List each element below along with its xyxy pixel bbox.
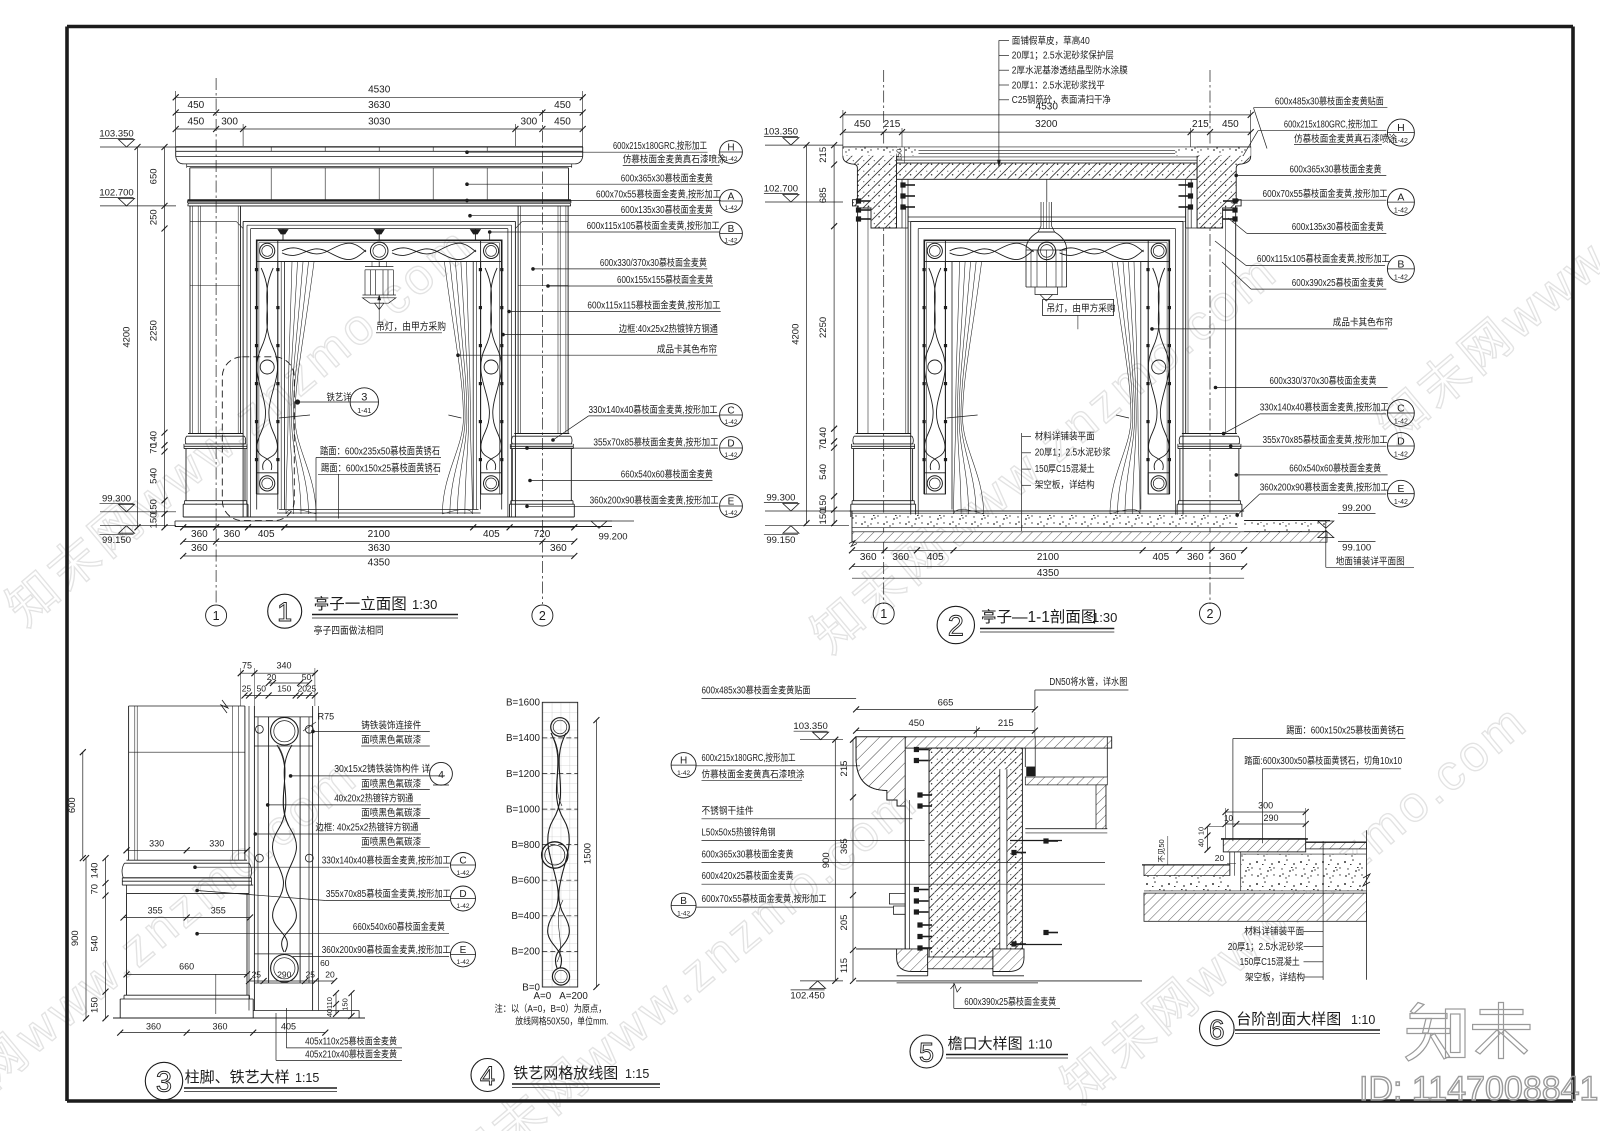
iron grille corner boxes <box>257 240 278 261</box>
svg-text:70: 70 <box>149 443 160 454</box>
svg-text:架空板，详结构: 架空板，详结构 <box>1245 970 1305 983</box>
section left cornice block hatched <box>843 147 897 228</box>
svg-text:铁艺网格放线图: 铁艺网格放线图 <box>513 1065 618 1082</box>
svg-text:450: 450 <box>908 718 924 729</box>
svg-text:405: 405 <box>927 552 944 563</box>
svg-text:150: 150 <box>277 684 291 694</box>
svg-text:600x115x105慕枝面金麦黄,按形加工: 600x115x105慕枝面金麦黄,按形加工 <box>587 219 720 232</box>
svg-text:1-42: 1-42 <box>677 770 690 777</box>
section opening trim <box>911 220 1183 222</box>
svg-text:30x15x2铸铁装饰构件 详: 30x15x2铸铁装饰构件 详 <box>334 762 430 775</box>
svg-text:360: 360 <box>146 1021 161 1031</box>
svg-text:70: 70 <box>90 884 101 895</box>
detail3 iron bottom circle <box>271 955 299 983</box>
column pedestal <box>853 449 855 501</box>
svg-text:1:10: 1:10 <box>1028 1038 1052 1052</box>
svg-text:140: 140 <box>90 863 101 879</box>
svg-text:1-42: 1-42 <box>456 903 469 910</box>
svg-text:360: 360 <box>223 529 240 540</box>
svg-text:3630: 3630 <box>368 100 391 111</box>
elevation bottom dimension row3 <box>183 555 574 557</box>
svg-text:600x215x180GRC,按形加工: 600x215x180GRC,按形加工 <box>1284 118 1378 131</box>
section 99.200 / 99.100 levels right <box>1244 520 1330 522</box>
section axis line 2 <box>1209 70 1211 604</box>
detail4 grid strip <box>542 702 577 987</box>
svg-text:1:30: 1:30 <box>412 597 437 612</box>
svg-text:成品卡其色布帘: 成品卡其色布帘 <box>657 342 717 355</box>
svg-text:355x70x85慕枝面金麦黄,按形加工: 355x70x85慕枝面金麦黄,按形加工 <box>326 887 451 900</box>
svg-text:3030: 3030 <box>368 117 391 128</box>
svg-text:B=200: B=200 <box>511 947 540 958</box>
svg-text:360: 360 <box>550 543 567 554</box>
svg-text:1: 1 <box>277 597 292 627</box>
svg-text:150: 150 <box>90 997 101 1013</box>
section left levels <box>765 144 843 146</box>
iron grille mid circles <box>1038 242 1056 260</box>
svg-text:360: 360 <box>1187 552 1204 563</box>
detail5 title circle <box>910 1035 943 1068</box>
iron grille side scrolls <box>929 268 945 470</box>
elevation ironwork callout leader <box>295 399 300 404</box>
svg-text:B=1600: B=1600 <box>506 698 541 709</box>
svg-text:360: 360 <box>860 552 877 563</box>
svg-text:B: B <box>680 896 687 907</box>
svg-text:150: 150 <box>149 513 160 529</box>
detail3 connector circles <box>256 725 264 733</box>
elevation cornice cove moulding <box>176 156 184 164</box>
elevation left levels 103.350 <box>100 146 176 148</box>
column base cap <box>1182 433 1237 435</box>
svg-text:成品卡其色布帘: 成品卡其色布帘 <box>1333 315 1393 328</box>
svg-text:A=0: A=0 <box>533 991 551 1002</box>
svg-text:边框: 40x25x2热镀锌方钢通: 边框: 40x25x2热镀锌方钢通 <box>316 820 419 833</box>
section grass stipple cap right <box>1175 148 1251 156</box>
detail6 bottom hatch band <box>1144 893 1366 921</box>
elevation frieze band <box>189 168 191 200</box>
section 150 slab dim <box>904 147 906 163</box>
column base cap <box>514 433 569 435</box>
svg-text:1-42: 1-42 <box>724 238 737 245</box>
iron grille side scrolls <box>261 268 277 470</box>
callout circle 3 / 1-41 <box>350 388 378 416</box>
svg-text:60: 60 <box>320 958 330 968</box>
column plinth <box>1178 500 1240 502</box>
section left dimension column <box>833 145 835 523</box>
svg-text:1-42: 1-42 <box>1394 451 1408 458</box>
column base cap <box>188 433 243 435</box>
detail5 600x70x55 stone bumps <box>889 894 905 905</box>
svg-text:660: 660 <box>179 962 194 972</box>
section bottom dimension row1 <box>852 549 1244 551</box>
section roof build-up lines <box>897 146 1198 148</box>
detail3 iron scroll curves <box>277 745 296 952</box>
svg-text:1-42: 1-42 <box>724 419 737 426</box>
svg-text:600x70x55慕枝面金麦黄,按形加工: 600x70x55慕枝面金麦黄,按形加工 <box>596 188 721 201</box>
svg-text:3200: 3200 <box>1035 119 1058 130</box>
svg-text:1-42: 1-42 <box>724 452 737 459</box>
svg-text:B=800: B=800 <box>511 840 540 851</box>
svg-text:C: C <box>459 856 466 867</box>
svg-text:340: 340 <box>276 661 291 671</box>
svg-text:B=1200: B=1200 <box>506 769 541 780</box>
svg-text:250: 250 <box>149 209 160 225</box>
elevation opening inner edges <box>283 262 285 510</box>
svg-text:75: 75 <box>242 661 252 671</box>
svg-text:600x155x155慕枝面金麦黄: 600x155x155慕枝面金麦黄 <box>617 273 713 286</box>
svg-text:900: 900 <box>821 852 832 868</box>
svg-text:103.350: 103.350 <box>99 129 133 140</box>
svg-text:99.150: 99.150 <box>102 535 131 546</box>
iron grille bottom boxes <box>257 473 278 494</box>
svg-text:仿慕枝面金麦黄真石漆喷涂: 仿慕枝面金麦黄真石漆喷涂 <box>702 768 805 781</box>
svg-text:102.700: 102.700 <box>99 187 133 198</box>
svg-text:铸铁装饰连接件: 铸铁装饰连接件 <box>361 719 421 732</box>
svg-text:A: A <box>1397 192 1404 204</box>
svg-text:2250: 2250 <box>818 317 829 338</box>
detail5 right interior corner <box>1024 748 1026 767</box>
svg-text:A=200: A=200 <box>559 991 588 1002</box>
svg-text:亭子—1-1剖面图: 亭子—1-1剖面图 <box>981 608 1096 626</box>
svg-text:4350: 4350 <box>1037 568 1060 579</box>
svg-text:360x200x90慕枝面金麦黄,按形加工: 360x200x90慕枝面金麦黄,按形加工 <box>1260 481 1389 494</box>
svg-text:330x140x40慕枝面金麦黄,按形加工: 330x140x40慕枝面金麦黄,按形加工 <box>1260 401 1389 414</box>
svg-text:540: 540 <box>149 468 160 484</box>
section anchor bolts <box>856 198 861 203</box>
section right cornice block hatched <box>1197 147 1251 228</box>
section overall 4200 dim <box>806 145 808 523</box>
svg-text:110: 110 <box>325 997 334 1009</box>
column pedestal <box>1179 449 1181 501</box>
svg-text:20厚1；2.5水泥砂浆保护层: 20厚1；2.5水泥砂浆保护层 <box>1012 49 1114 62</box>
detail3 ground line <box>113 1017 365 1019</box>
svg-text:150: 150 <box>149 499 160 515</box>
svg-text:300: 300 <box>521 117 538 128</box>
curtain drape <box>954 262 960 514</box>
svg-text:650: 650 <box>149 168 160 184</box>
detail5 bottom moulding <box>897 949 928 972</box>
svg-text:99.200: 99.200 <box>1342 503 1371 514</box>
detail3 title circle <box>145 1062 182 1099</box>
elevation opening stone trim <box>243 220 515 222</box>
section title circle <box>937 606 974 643</box>
svg-text:2: 2 <box>539 609 546 623</box>
svg-text:6: 6 <box>1209 1014 1225 1045</box>
detail5 vertical dims <box>834 740 836 981</box>
elevation left levels 99.150 <box>100 525 176 527</box>
detail4 title circle <box>471 1059 504 1092</box>
detail4 scroll pattern <box>551 718 570 737</box>
svg-text:不锈钢干挂件: 不锈钢干挂件 <box>702 804 754 817</box>
svg-text:面铺假草皮，草高40: 面铺假草皮，草高40 <box>1012 34 1090 47</box>
svg-text:360x200x90慕枝面金麦黄,按形加工: 360x200x90慕枝面金麦黄,按形加工 <box>590 494 719 507</box>
svg-text:材料详铺装平面: 材料详铺装平面 <box>1244 925 1304 938</box>
elevation left levels 102.700 <box>100 205 176 207</box>
elevation chandelier <box>378 262 380 267</box>
svg-text:1:10: 1:10 <box>1351 1013 1375 1027</box>
elevation 99.200 level <box>570 520 634 522</box>
svg-text:D: D <box>727 439 734 450</box>
svg-text:99.300: 99.300 <box>102 493 131 504</box>
svg-text:4530: 4530 <box>368 85 391 96</box>
detail6 left fragment edge <box>1143 830 1145 921</box>
detail5 right soffit panel <box>1025 777 1107 785</box>
elevation bottom dimension row1 <box>183 526 574 528</box>
svg-text:踏面：600x235x50慕枝面黄锈石: 踏面：600x235x50慕枝面黄锈石 <box>320 445 440 458</box>
svg-text:360: 360 <box>191 529 208 540</box>
svg-text:面喷黑色氟碳漆: 面喷黑色氟碳漆 <box>361 835 421 848</box>
svg-text:600x485x30慕枝面金麦黄贴面: 600x485x30慕枝面金麦黄贴面 <box>1275 95 1384 108</box>
elevation column joint lines <box>190 285 241 287</box>
svg-text:330x140x40慕枝面金麦黄,按形加工: 330x140x40慕枝面金麦黄,按形加工 <box>322 854 451 867</box>
svg-text:150厚C15混凝土: 150厚C15混凝土 <box>1240 955 1300 968</box>
svg-text:450: 450 <box>854 119 871 130</box>
svg-text:1-42: 1-42 <box>677 910 690 917</box>
grille connector studs <box>479 268 482 271</box>
detail5 wall cladding strips <box>904 790 906 949</box>
detail5 top slab hatched band <box>856 737 1112 748</box>
svg-text:360: 360 <box>191 543 208 554</box>
sheet border frame <box>67 25 1573 29</box>
elevation axis bubble 1 <box>206 605 227 626</box>
svg-text:365: 365 <box>839 838 850 854</box>
svg-text:300: 300 <box>221 117 238 128</box>
svg-text:4200: 4200 <box>122 327 133 348</box>
section opening inner edges <box>951 262 953 510</box>
grille connector studs <box>1146 268 1149 271</box>
elevation top dimension row 4530 <box>175 91 177 147</box>
svg-text:20厚1；2.5水泥砂浆: 20厚1；2.5水泥砂浆 <box>1228 940 1304 953</box>
svg-text:660x540x60慕枝面金麦黄: 660x540x60慕枝面金麦黄 <box>1289 462 1381 475</box>
svg-text:踏面:600x300x50慕枝面黄锈石，切角10x10: 踏面:600x300x50慕枝面黄锈石，切角10x10 <box>1244 754 1402 767</box>
svg-text:1-42: 1-42 <box>1394 418 1408 425</box>
detail3 plinth <box>124 994 250 996</box>
column pedestal <box>185 449 187 501</box>
svg-text:注：以（A=0，B=0）为原点，: 注：以（A=0，B=0）为原点， <box>495 1002 607 1015</box>
svg-text:600x115x105慕枝面金麦黄,按形加工: 600x115x105慕枝面金麦黄,按形加工 <box>1257 252 1390 265</box>
elevation grille base posts <box>256 494 258 510</box>
svg-text:1-42: 1-42 <box>1394 274 1408 281</box>
svg-text:360: 360 <box>1219 552 1236 563</box>
svg-text:B: B <box>728 224 735 235</box>
detail3 110 40 150 dims <box>335 993 337 1014</box>
elevation bottom dimension row2 <box>183 541 574 543</box>
svg-text:DN50将水管，详水图: DN50将水管，详水图 <box>1049 675 1127 688</box>
elevation chandelier label leader <box>378 297 380 324</box>
svg-text:3: 3 <box>156 1067 172 1099</box>
svg-text:4: 4 <box>438 769 444 781</box>
svg-text:B=600: B=600 <box>511 876 540 887</box>
svg-text:亭子一立面图: 亭子一立面图 <box>314 595 407 613</box>
svg-text:450: 450 <box>554 100 571 111</box>
svg-text:70: 70 <box>818 439 829 450</box>
elevation iron grille top hangers <box>282 229 284 241</box>
svg-text:C: C <box>1397 403 1405 415</box>
svg-text:1: 1 <box>213 609 220 623</box>
section ceiling beams <box>896 179 898 228</box>
svg-text:450: 450 <box>188 100 205 111</box>
svg-text:405: 405 <box>281 1021 296 1031</box>
svg-text:215: 215 <box>884 119 901 130</box>
svg-text:仿慕枝面金麦黄真石漆喷涂: 仿慕枝面金麦黄真石漆喷涂 <box>623 153 726 166</box>
svg-text:2厚水泥基渗透结晶型防水涂膜: 2厚水泥基渗透结晶型防水涂膜 <box>1012 64 1128 77</box>
svg-text:290: 290 <box>1263 813 1278 823</box>
svg-text:40x20x2热镀锌方钢通: 40x20x2热镀锌方钢通 <box>334 791 413 804</box>
section concrete hatch band <box>852 532 1327 542</box>
svg-text:600x330/370x30慕枝面金麦黄: 600x330/370x30慕枝面金麦黄 <box>1270 374 1377 387</box>
svg-text:材料详铺装平面: 材料详铺装平面 <box>1035 429 1095 442</box>
elevation axis bubble 2 <box>532 605 553 626</box>
curtain drape <box>1134 262 1140 514</box>
svg-text:1-42: 1-42 <box>724 205 737 212</box>
svg-text:405x210x40慕枝面金麦黄: 405x210x40慕枝面金麦黄 <box>305 1047 397 1060</box>
svg-text:亭子四面做法相同: 亭子四面做法相同 <box>314 624 384 637</box>
svg-text:600x215x180GRC,按形加工: 600x215x180GRC,按形加工 <box>702 751 796 764</box>
svg-text:E: E <box>728 497 735 508</box>
svg-text:450: 450 <box>554 117 571 128</box>
column base cap <box>856 433 911 435</box>
svg-text:吊灯，由甲方采购: 吊灯，由甲方采购 <box>1047 302 1116 315</box>
svg-text:D: D <box>459 889 466 900</box>
elevation cornice slab <box>176 146 583 148</box>
svg-text:1-41: 1-41 <box>357 408 371 415</box>
svg-text:215: 215 <box>818 147 829 163</box>
svg-text:不见50: 不见50 <box>1157 839 1166 862</box>
detail3 break line <box>221 700 228 713</box>
detail3 base cap mouldings <box>127 859 248 861</box>
detail4 1500 dim <box>595 720 597 987</box>
svg-text:1:15: 1:15 <box>295 1071 319 1085</box>
svg-text:900: 900 <box>70 930 81 946</box>
svg-text:R75: R75 <box>318 712 335 722</box>
svg-text:150: 150 <box>341 998 350 1011</box>
column plinth <box>511 500 573 502</box>
detail6 right boundary <box>1365 830 1367 980</box>
svg-text:600: 600 <box>67 797 78 813</box>
svg-text:330: 330 <box>209 839 224 849</box>
elevation left dimension column <box>164 147 166 527</box>
svg-text:2: 2 <box>948 611 964 643</box>
detail3 left dims <box>82 752 84 858</box>
svg-text:355: 355 <box>211 906 226 916</box>
svg-text:1500: 1500 <box>582 843 593 864</box>
column plinth <box>185 500 247 502</box>
iron grille outer frame <box>257 240 502 494</box>
detail6 upper paving right <box>1306 842 1367 849</box>
iron grille mid circles <box>370 242 388 260</box>
svg-text:C25钢筋砼，表面清扫干净: C25钢筋砼，表面清扫干净 <box>1012 93 1111 106</box>
svg-text:H: H <box>680 756 687 767</box>
elevation opening sill step <box>279 509 479 511</box>
svg-text:600x365x30慕枝面金麦黄: 600x365x30慕枝面金麦黄 <box>702 848 794 861</box>
svg-text:面喷黑色氟碳漆: 面喷黑色氟碳漆 <box>361 733 421 746</box>
svg-text:1:15: 1:15 <box>625 1067 649 1081</box>
svg-text:1-42: 1-42 <box>1394 208 1408 215</box>
column plinth <box>852 500 914 502</box>
svg-text:150: 150 <box>895 149 904 162</box>
svg-text:4530: 4530 <box>1036 102 1059 113</box>
elevation left column shaft <box>189 206 191 434</box>
svg-text:20: 20 <box>1215 853 1225 863</box>
svg-text:2: 2 <box>1207 607 1214 621</box>
svg-text:地面铺装详平面图: 地面铺装详平面图 <box>1336 555 1405 568</box>
svg-text:踢面：600x150x25慕枝面黄锈石: 踢面：600x150x25慕枝面黄锈石 <box>1286 724 1404 737</box>
svg-text:103.350: 103.350 <box>764 127 798 138</box>
svg-text:600x485x30慕枝面金麦黄贴面: 600x485x30慕枝面金麦黄贴面 <box>702 684 811 697</box>
elevation axis line 1 <box>215 78 217 604</box>
svg-text:600x390x25慕枝面金麦黄: 600x390x25慕枝面金麦黄 <box>964 995 1056 1008</box>
section columns <box>857 206 859 434</box>
svg-text:360x200x90慕枝面金麦黄,按形加工: 360x200x90慕枝面金麦黄,按形加工 <box>322 943 451 956</box>
svg-text:660x540x60慕枝面金麦黄: 660x540x60慕枝面金麦黄 <box>353 920 445 933</box>
svg-text:4: 4 <box>480 1061 495 1091</box>
svg-text:边框:40x25x2热镀锌方钢通: 边框:40x25x2热镀锌方钢通 <box>619 322 718 335</box>
section chandelier label box <box>1043 300 1114 316</box>
svg-text:H: H <box>1397 122 1405 134</box>
svg-text:600x330/370x30慕枝面金麦黄: 600x330/370x30慕枝面金麦黄 <box>600 256 707 269</box>
svg-text:L50x50x5热镀锌角钢: L50x50x5热镀锌角钢 <box>702 826 776 839</box>
svg-text:E: E <box>460 945 467 956</box>
svg-text:1-42: 1-42 <box>1394 499 1408 506</box>
detail6 lower concrete <box>1144 876 1232 891</box>
svg-text:600x215x180GRC,按形加工: 600x215x180GRC,按形加工 <box>613 139 707 152</box>
svg-text:1-42: 1-42 <box>456 959 469 966</box>
grille connector studs <box>255 268 258 271</box>
svg-text:540: 540 <box>818 464 829 480</box>
svg-text:99.150: 99.150 <box>766 535 795 546</box>
svg-text:99.300: 99.300 <box>766 493 795 504</box>
elevation right column shaft <box>567 206 569 434</box>
svg-text:1:30: 1:30 <box>1092 610 1117 625</box>
detail5 main wall hatched <box>929 748 1022 957</box>
svg-text:铁艺详: 铁艺详 <box>327 392 352 404</box>
svg-text:20厚1：2.5水泥砂浆找平: 20厚1：2.5水泥砂浆找平 <box>1012 78 1105 91</box>
svg-text:360: 360 <box>212 1021 227 1031</box>
iron grille corner boxes <box>924 240 945 261</box>
svg-text:20: 20 <box>325 970 335 980</box>
svg-text:放线网格50X50，单位mm.: 放线网格50X50，单位mm. <box>515 1015 608 1028</box>
svg-text:D: D <box>1397 436 1405 448</box>
svg-text:1-42: 1-42 <box>456 870 469 877</box>
svg-text:150: 150 <box>818 509 829 525</box>
svg-text:檐口大样图: 檐口大样图 <box>948 1036 1023 1053</box>
svg-text:B=1000: B=1000 <box>506 804 541 815</box>
svg-text:E: E <box>1397 483 1404 495</box>
svg-text:103.350: 103.350 <box>793 721 827 732</box>
detail6 title circle <box>1200 1011 1235 1046</box>
svg-text:仿慕枝面金麦黄真石漆喷涂: 仿慕枝面金麦黄真石漆喷涂 <box>1294 132 1397 145</box>
svg-text:20厚1；2.5水泥砂浆: 20厚1；2.5水泥砂浆 <box>1035 446 1111 459</box>
svg-text:102.700: 102.700 <box>764 184 798 195</box>
svg-text:3630: 3630 <box>368 543 391 554</box>
svg-text:660x540x60慕枝面金麦黄: 660x540x60慕枝面金麦黄 <box>621 468 713 481</box>
svg-text:1-42: 1-42 <box>724 510 737 517</box>
detail6 small dims 10 40 20 <box>1207 827 1209 850</box>
svg-text:600x365x30慕枝面金麦黄: 600x365x30慕枝面金麦黄 <box>621 171 713 184</box>
detail3 column shaft <box>128 706 130 860</box>
svg-text:685: 685 <box>818 187 829 203</box>
section roof slab hatched <box>897 163 1198 179</box>
svg-text:B=400: B=400 <box>511 911 540 922</box>
detail5 anchors <box>914 747 919 752</box>
detail3 ironwork panel frame <box>248 706 250 1011</box>
svg-text:450: 450 <box>188 117 205 128</box>
znzmo logo 知 character <box>1411 1003 1425 1014</box>
svg-text:215: 215 <box>1192 119 1209 130</box>
svg-text:600x70x55慕枝面金麦黄,按形加工: 600x70x55慕枝面金麦黄,按形加工 <box>1263 187 1388 200</box>
znzmo logo 末 character <box>1480 1010 1523 1015</box>
iron grille top wave scroll <box>950 243 1034 254</box>
elevation dashed detail box <box>222 357 294 521</box>
